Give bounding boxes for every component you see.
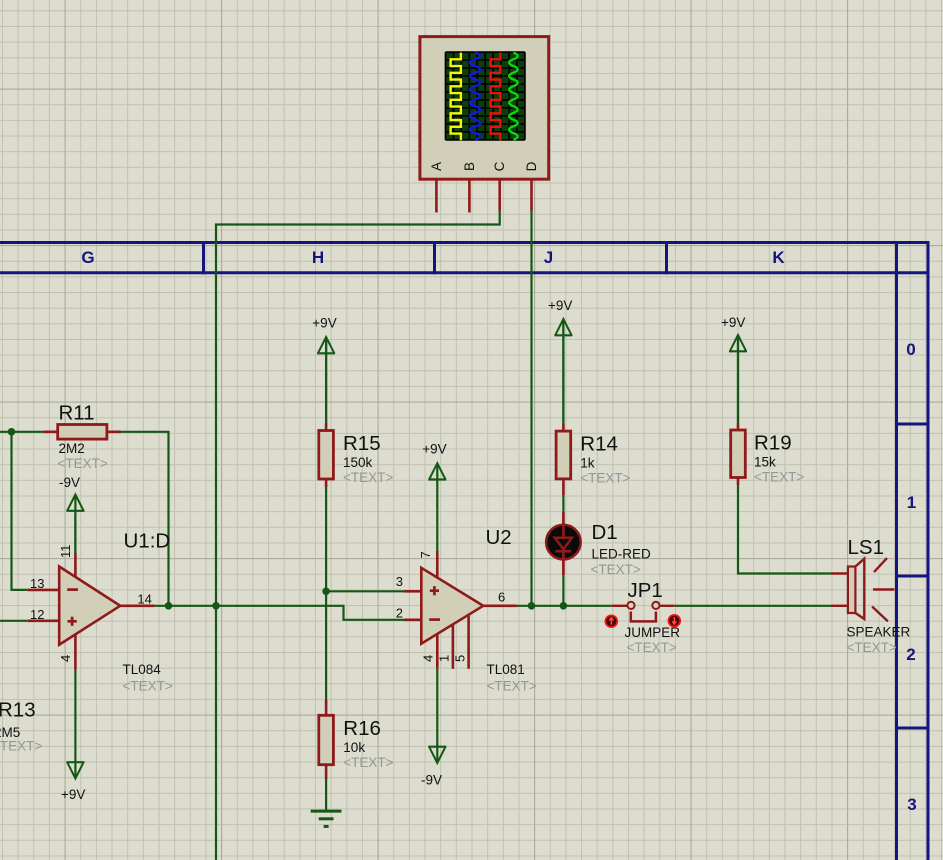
svg-text:2M2: 2M2 bbox=[59, 441, 85, 456]
svg-text:JUMPER: JUMPER bbox=[625, 625, 681, 640]
power symbol +9V (arrow down) bbox=[66, 762, 84, 778]
op-amp U2 pin number 7 (rotated) bbox=[418, 551, 433, 558]
resistor R14 body bbox=[556, 424, 571, 495]
jumper JP1 text placeholder bbox=[627, 640, 677, 655]
svg-text:JP1: JP1 bbox=[628, 579, 663, 602]
wire R14 bottom to D1 anode bbox=[562, 495, 564, 512]
svg-text:K: K bbox=[772, 248, 785, 267]
op-amp U1:D pin number 11 (rotated) bbox=[58, 545, 73, 559]
LED D1 reference label bbox=[592, 521, 618, 544]
svg-text:LS1: LS1 bbox=[848, 536, 884, 559]
svg-text:3: 3 bbox=[907, 795, 916, 814]
svg-text:7: 7 bbox=[418, 551, 433, 558]
wire R11 right lead to feedback drop bbox=[121, 432, 169, 606]
jumper JP1 link bracket bbox=[631, 612, 656, 622]
wire scope channel C to net below (vertical long run x=216) bbox=[216, 211, 500, 860]
resistor R13 text placeholder (clipped) bbox=[0, 739, 42, 754]
op-amp U1:D pin 4 stub bbox=[74, 634, 77, 669]
speaker LS1 body bbox=[848, 559, 864, 619]
svg-text:10k: 10k bbox=[343, 740, 365, 755]
wire JP1 right to speaker lower pin bbox=[674, 605, 832, 607]
svg-text:6: 6 bbox=[498, 590, 505, 605]
power symbol -9V (arrow down) bbox=[428, 745, 446, 763]
op-amp U2 pin number 3 bbox=[396, 574, 403, 589]
border column separator H/J bbox=[433, 241, 436, 274]
op-amp U2 pin 2 stub bbox=[405, 618, 422, 621]
LED D1 body bbox=[546, 512, 581, 575]
svg-text:TL084: TL084 bbox=[123, 662, 162, 677]
resistor R19 text placeholder bbox=[754, 470, 804, 485]
op-amp U2 pin number 4 (rotated) bbox=[421, 655, 436, 662]
junction R11 left node bbox=[8, 428, 16, 436]
wire node at R11 left down to U1:D pin 13 bbox=[12, 432, 28, 590]
op-amp U2 minus sign bbox=[429, 618, 440, 621]
junction D1 branch / output net bbox=[560, 602, 568, 610]
svg-text:+9V: +9V bbox=[548, 298, 572, 313]
svg-text:2: 2 bbox=[906, 645, 915, 664]
svg-text:<TEXT>: <TEXT> bbox=[847, 640, 897, 655]
wire R19 top to +9V arrow bbox=[737, 337, 739, 423]
LED D1 value label LED-RED bbox=[592, 547, 652, 562]
svg-text:R11: R11 bbox=[59, 402, 95, 425]
svg-text:150k: 150k bbox=[343, 455, 373, 470]
speaker LS1 sound wave lines bbox=[872, 558, 894, 621]
op-amp U1:D reference label bbox=[124, 530, 171, 553]
svg-text:15k: 15k bbox=[754, 455, 776, 470]
svg-text:+9V: +9V bbox=[312, 316, 336, 331]
oscilloscope trace channel D (green sine wave) bbox=[509, 53, 518, 140]
op-amp U2 pin number 1 (rotated) bbox=[437, 655, 452, 662]
svg-text:<TEXT>: <TEXT> bbox=[0, 739, 42, 754]
resistor R15 value label 150k bbox=[343, 455, 373, 470]
op-amp U2 pin 4 stub bbox=[436, 634, 439, 669]
jumper JP1 right terminal circle bbox=[652, 602, 659, 609]
resistor R11 value label 2M2 bbox=[59, 441, 85, 456]
oscilloscope trace channel B (blue sine wave) bbox=[470, 53, 480, 140]
wire scope channel D down to U2 output net bbox=[530, 211, 532, 606]
svg-text:R16: R16 bbox=[343, 717, 381, 740]
jumper JP1 left terminal circle bbox=[627, 602, 634, 609]
resistor R13 value label 2M5 (clipped) bbox=[0, 725, 20, 740]
svg-text:TL081: TL081 bbox=[487, 662, 525, 677]
op-amp U2 pin number 6 bbox=[498, 590, 505, 605]
svg-text:R15: R15 bbox=[343, 432, 381, 455]
wire R16 bottom to ground bbox=[325, 779, 327, 810]
oscilloscope channel label A bbox=[429, 162, 444, 171]
svg-text:A: A bbox=[429, 162, 444, 171]
op-amp U1:D pin number 13 bbox=[30, 576, 44, 591]
svg-text:<TEXT>: <TEXT> bbox=[343, 470, 393, 485]
svg-text:<TEXT>: <TEXT> bbox=[627, 640, 677, 655]
op-amp U1:D text placeholder bbox=[123, 679, 173, 694]
speaker LS1 lower pin stub bbox=[832, 605, 848, 607]
svg-text:1: 1 bbox=[907, 493, 916, 512]
svg-text:B: B bbox=[462, 162, 477, 171]
svg-text:<TEXT>: <TEXT> bbox=[754, 470, 804, 485]
power symbol +9V (arrow up) bbox=[428, 463, 446, 479]
svg-text:D: D bbox=[524, 161, 539, 171]
wire R19 bottom to speaker upper pin bbox=[738, 485, 831, 574]
op-amp U1:D minus sign bbox=[67, 588, 78, 591]
op-amp U2 pin 5 stub bbox=[467, 615, 470, 669]
svg-text:R13: R13 bbox=[0, 699, 36, 722]
border row separator 2/3 bbox=[895, 727, 930, 730]
power symbol +9V (arrow up) bbox=[317, 337, 335, 423]
op-amp U1:D plus sign bbox=[68, 617, 77, 626]
svg-text:H: H bbox=[312, 248, 324, 267]
wire U1:D output to U2 inverting input bbox=[155, 606, 405, 620]
resistor R16 body bbox=[319, 700, 334, 779]
op-amp U2 pin 6 output stub bbox=[483, 604, 517, 607]
border row label 3 bbox=[907, 795, 916, 814]
svg-text:<TEXT>: <TEXT> bbox=[591, 562, 641, 577]
resistor R11 body bbox=[44, 425, 120, 440]
border row label 1 bbox=[907, 493, 916, 512]
oscilloscope channel label B bbox=[462, 162, 477, 171]
svg-text:R19: R19 bbox=[754, 432, 792, 455]
svg-text:LED-RED: LED-RED bbox=[592, 547, 652, 562]
svg-text:-9V: -9V bbox=[421, 773, 442, 788]
svg-text:+9V: +9V bbox=[61, 787, 85, 802]
oscilloscope pin D bbox=[530, 179, 533, 210]
svg-text:0: 0 bbox=[906, 340, 915, 359]
resistor R11 reference label bbox=[59, 402, 95, 425]
op-amp U1:D pin number 4 (rotated) bbox=[58, 655, 73, 662]
op-amp U2 body bbox=[421, 568, 483, 644]
resistor R16 reference label bbox=[343, 717, 381, 740]
jumper JP1 right pin stub bbox=[660, 605, 675, 607]
power label -9V bbox=[59, 475, 80, 490]
border right outer vertical line bbox=[927, 241, 930, 860]
wire U2 pin 4 to -9V arrow bbox=[436, 669, 438, 745]
speaker LS1 upper pin stub bbox=[831, 572, 848, 574]
op-amp U2 pin 3 stub bbox=[405, 590, 422, 593]
resistor R14 reference label bbox=[580, 433, 618, 456]
wire R11 left lead to left edge bbox=[0, 431, 44, 433]
op-amp U2 part label TL081 bbox=[487, 662, 525, 677]
border row separator 0/1 bbox=[895, 423, 930, 426]
resistor R11 text placeholder bbox=[58, 456, 108, 471]
power label +9V bbox=[61, 787, 85, 802]
wire U1:D pin 11 to -9V arrow bbox=[74, 515, 76, 554]
svg-text:14: 14 bbox=[137, 592, 151, 607]
resistor R19 value label 15k bbox=[754, 455, 776, 470]
oscilloscope pin B bbox=[468, 179, 471, 212]
svg-text:C: C bbox=[492, 161, 507, 171]
jumper JP1 pin 1 marker (red circle, up arrow) bbox=[605, 615, 617, 627]
resistor R19 body bbox=[731, 423, 746, 485]
junction U2 output / scope D wire bbox=[528, 602, 536, 610]
op-amp U2 pin 1 stub bbox=[452, 624, 455, 668]
oscilloscope body bbox=[420, 37, 549, 180]
power label +9V bbox=[548, 298, 572, 313]
op-amp U2 reference label bbox=[486, 526, 512, 549]
svg-text:-9V: -9V bbox=[59, 475, 80, 490]
svg-text:11: 11 bbox=[58, 545, 73, 559]
resistor R19 reference label bbox=[754, 432, 792, 455]
wire R15 bottom through junction down to R16 top bbox=[325, 487, 327, 700]
op-amp U2 plus sign bbox=[430, 586, 439, 595]
jumper JP1 reference label bbox=[628, 579, 663, 602]
speaker LS1 reference label bbox=[848, 536, 884, 559]
border column label G bbox=[81, 248, 94, 267]
power label -9V bbox=[421, 773, 442, 788]
border column label J bbox=[544, 248, 553, 267]
op-amp U2 text placeholder bbox=[487, 679, 537, 694]
op-amp U1:D pin 14 output stub bbox=[120, 604, 154, 607]
oscilloscope channel label C bbox=[492, 161, 507, 171]
op-amp U2 pin number 5 (rotated) bbox=[453, 655, 468, 662]
svg-text:<TEXT>: <TEXT> bbox=[58, 456, 108, 471]
svg-text:5: 5 bbox=[453, 655, 468, 662]
resistor R14 text placeholder bbox=[580, 471, 630, 486]
svg-text:U1:D: U1:D bbox=[124, 530, 171, 553]
jumper JP1 value label JUMPER bbox=[625, 625, 681, 640]
op-amp U1:D pin 13 stub bbox=[28, 589, 60, 592]
border column label H bbox=[312, 248, 324, 267]
resistor R15 text placeholder bbox=[343, 470, 393, 485]
op-amp U1:D body bbox=[59, 567, 120, 645]
resistor R16 value label 10k bbox=[343, 740, 365, 755]
border row separator 1/2 bbox=[895, 575, 930, 578]
border row label 2 bbox=[906, 645, 915, 664]
power label +9V bbox=[422, 442, 446, 457]
svg-text:13: 13 bbox=[30, 576, 44, 591]
svg-text:<TEXT>: <TEXT> bbox=[487, 679, 537, 694]
speaker LS1 text placeholder bbox=[847, 640, 897, 655]
jumper JP1 pin 2 marker (red circle, down arrow) bbox=[668, 615, 680, 627]
power symbol -9V (arrow up) bbox=[66, 495, 84, 554]
sheet border band top line bbox=[0, 241, 930, 244]
op-amp U1:D pin 11 stub bbox=[74, 553, 77, 578]
op-amp U1:D pin number 14 bbox=[137, 592, 151, 607]
oscilloscope pin C bbox=[498, 179, 501, 210]
jumper JP1 left pin stub bbox=[612, 605, 628, 607]
oscilloscope trace channel C (red square wave) bbox=[491, 53, 501, 141]
svg-text:D1: D1 bbox=[592, 521, 618, 544]
svg-text:2: 2 bbox=[396, 606, 403, 621]
border right inner vertical line bbox=[895, 241, 898, 860]
op-amp U1:D pin 12 stub bbox=[28, 619, 60, 622]
wire R15 top to +9V arrow bbox=[325, 339, 327, 423]
junction R15 to pin3 bbox=[322, 588, 330, 596]
resistor R16 text placeholder bbox=[343, 755, 393, 770]
border column separator J/K bbox=[665, 241, 668, 274]
power label +9V bbox=[312, 316, 336, 331]
svg-text:<TEXT>: <TEXT> bbox=[343, 755, 393, 770]
svg-text:U2: U2 bbox=[486, 526, 512, 549]
oscilloscope screen bbox=[446, 52, 525, 140]
ground symbol bbox=[311, 811, 342, 826]
svg-text:12: 12 bbox=[30, 607, 44, 622]
border column label K bbox=[772, 248, 785, 267]
svg-text:+9V: +9V bbox=[721, 315, 745, 330]
resistor R13 reference label (partial, off-canvas component) bbox=[0, 699, 36, 722]
wire R14 top to +9V arrow bbox=[562, 321, 564, 424]
op-amp U1:D pin number 12 bbox=[30, 607, 44, 622]
power label +9V bbox=[721, 315, 745, 330]
svg-text:<TEXT>: <TEXT> bbox=[580, 471, 630, 486]
LED D1 text placeholder bbox=[591, 562, 641, 577]
svg-text:1: 1 bbox=[437, 655, 452, 662]
op-amp U1:D part label TL084 bbox=[123, 662, 162, 677]
junction scope C net / output wire bbox=[212, 602, 220, 610]
junction U1:D output / feedback bbox=[165, 602, 173, 610]
border column separator G/H bbox=[202, 241, 205, 274]
wire U1:D pin 4 to +9V arrow bbox=[74, 670, 76, 764]
wire U2 pin 7 to +9V arrow bbox=[436, 480, 438, 552]
svg-text:3: 3 bbox=[396, 574, 403, 589]
svg-text:R14: R14 bbox=[580, 433, 618, 456]
power symbol +9V (arrow up) bbox=[729, 335, 747, 423]
wire R15/R16 junction to U2 pin 3 bbox=[326, 590, 404, 592]
resistor R15 body bbox=[319, 423, 334, 487]
svg-text:SPEAKER: SPEAKER bbox=[847, 625, 911, 640]
oscilloscope pin A bbox=[435, 179, 438, 212]
sheet border band bottom line bbox=[0, 271, 930, 274]
oscilloscope channel label D bbox=[524, 161, 539, 171]
svg-text:1k: 1k bbox=[580, 456, 595, 471]
svg-text:4: 4 bbox=[58, 655, 73, 662]
power symbol +9V (arrow up) bbox=[554, 319, 572, 424]
svg-text:+9V: +9V bbox=[422, 442, 446, 457]
resistor R14 value label 1k bbox=[580, 456, 595, 471]
op-amp U2 pin number 2 bbox=[396, 606, 403, 621]
svg-text:4: 4 bbox=[421, 655, 436, 662]
wire U2 output to speaker net bbox=[517, 605, 612, 607]
resistor R15 reference label bbox=[343, 432, 381, 455]
border row label 0 bbox=[906, 340, 915, 359]
svg-text:<TEXT>: <TEXT> bbox=[123, 679, 173, 694]
oscilloscope trace channel A (yellow square wave) bbox=[451, 53, 461, 141]
wire U1:D pin 12 from left edge bbox=[0, 620, 28, 622]
wire D1 cathode to output net bbox=[562, 575, 564, 606]
op-amp U2 pin 7 stub bbox=[436, 551, 439, 578]
speaker LS1 value label SPEAKER bbox=[847, 625, 911, 640]
svg-text:G: G bbox=[81, 248, 94, 267]
svg-text:J: J bbox=[544, 248, 553, 267]
